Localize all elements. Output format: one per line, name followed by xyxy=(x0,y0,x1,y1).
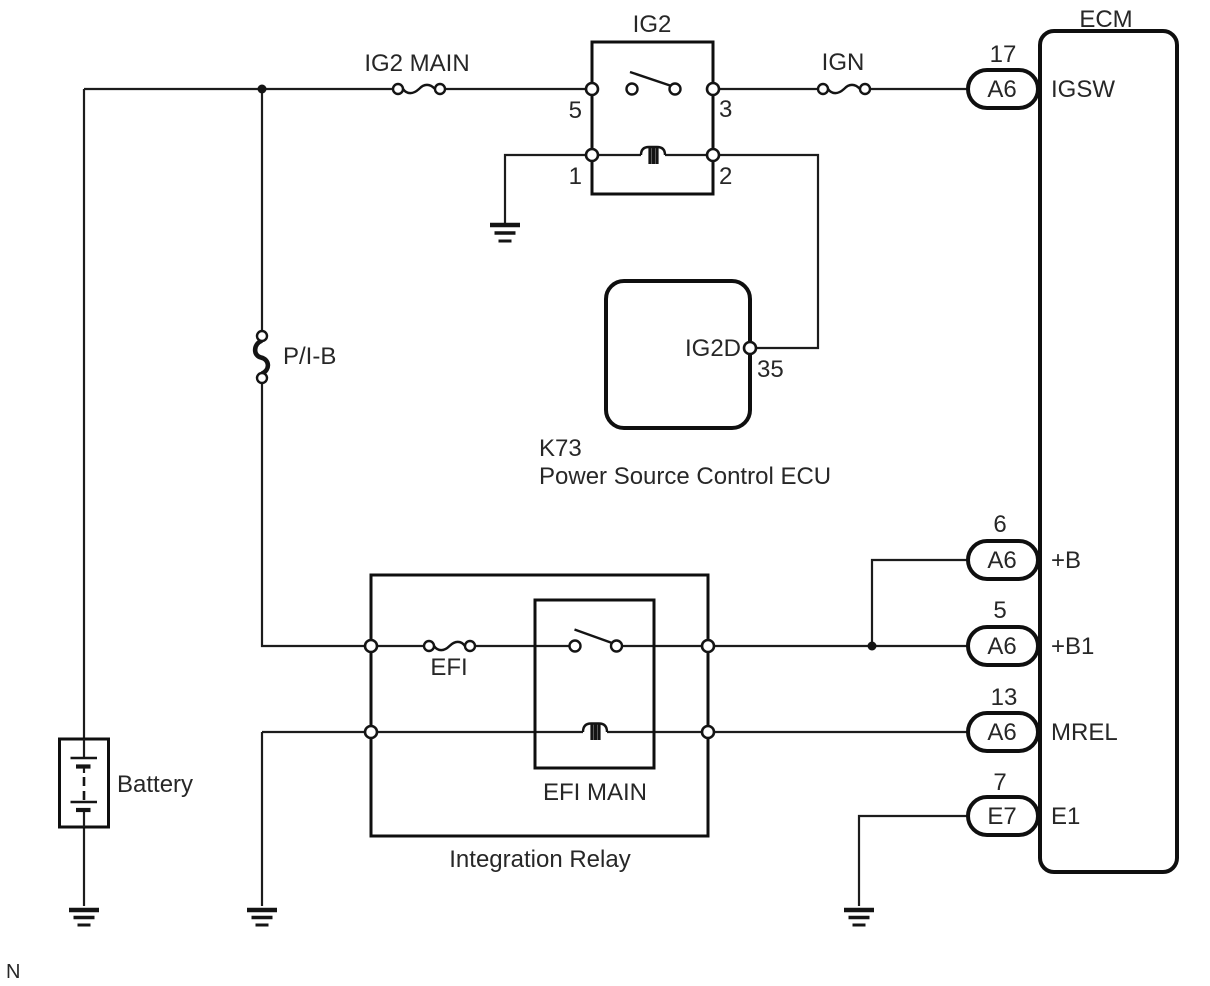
svg-text:13: 13 xyxy=(991,684,1018,711)
relay EFI MAIN outline xyxy=(535,600,654,768)
svg-text:ECM: ECM xyxy=(1079,6,1132,33)
svg-text:Power Source Control ECU: Power Source Control ECU xyxy=(539,463,831,490)
svg-text:E1: E1 xyxy=(1051,803,1080,830)
label: E1 xyxy=(1051,803,1080,830)
svg-text:IG2D: IG2D xyxy=(685,335,741,362)
label: MREL xyxy=(1051,719,1118,746)
label: +B xyxy=(1051,547,1081,574)
svg-text:EFI MAIN: EFI MAIN xyxy=(543,779,647,806)
svg-text:Battery: Battery xyxy=(117,771,193,798)
ground below ECM E1 xyxy=(844,910,874,925)
relay IG2 outline xyxy=(592,42,713,194)
svg-text:5: 5 xyxy=(993,597,1006,624)
svg-text:EFI: EFI xyxy=(430,654,467,681)
wire: EFI fuse to EFI MAIN switch xyxy=(470,645,575,647)
wire: coil to ECM MREL xyxy=(607,731,969,733)
connector A6 pin 13 MREL xyxy=(968,713,1038,751)
label: P/I-B xyxy=(283,343,336,370)
wire: battery positive feed, top horizontal left segment xyxy=(84,88,398,90)
pin number 35 xyxy=(757,356,784,383)
switch contact inside EFI MAIN xyxy=(570,630,623,652)
pin number 13 xyxy=(991,684,1018,711)
label: A6 (+B1) xyxy=(987,633,1016,660)
svg-text:N: N xyxy=(6,961,20,983)
terminal integration relay top-left xyxy=(365,640,377,652)
svg-text:Integration Relay: Integration Relay xyxy=(449,846,630,873)
pin IG2D terminal of K73 xyxy=(744,342,756,354)
label: EFI xyxy=(430,654,467,681)
fusible link P/I-B xyxy=(255,331,268,383)
pin 1 terminal of IG2 xyxy=(586,149,598,161)
wire: MREL line left side through relay coil xyxy=(262,731,583,733)
wire: E1 to ground xyxy=(859,816,969,906)
svg-text:2: 2 xyxy=(719,163,732,190)
pin number 6 xyxy=(993,511,1006,538)
ECU K73 Power Source Control ECU outline xyxy=(606,281,750,428)
pin number 5 (+B1) xyxy=(993,597,1006,624)
label: IGSW xyxy=(1051,76,1115,103)
pin 2 terminal of IG2 xyxy=(707,149,719,161)
svg-text:IG2 MAIN: IG2 MAIN xyxy=(364,50,469,77)
label: A6 (+B) xyxy=(987,547,1016,574)
wire: left vertical from top wire down to battery xyxy=(83,89,85,739)
label: Integration Relay xyxy=(449,846,630,873)
terminal integration relay bottom-right xyxy=(702,726,714,738)
node: junction of battery feed and P/I-B branch xyxy=(258,85,267,94)
wire: EFI MAIN switch to ECM +B1 xyxy=(617,645,970,647)
svg-text:K73: K73 xyxy=(539,435,582,462)
label: Power Source Control ECU xyxy=(539,463,831,490)
svg-text:IG2: IG2 xyxy=(633,11,672,38)
battery xyxy=(60,739,109,827)
wire: IG2 coil line pin2 side xyxy=(665,154,713,156)
pin number 7 xyxy=(993,769,1006,796)
svg-text:+B: +B xyxy=(1051,547,1081,574)
terminal integration relay bottom-left xyxy=(365,726,377,738)
svg-text:MREL: MREL xyxy=(1051,719,1118,746)
pin number 17 xyxy=(990,41,1017,68)
label: +B1 xyxy=(1051,633,1094,660)
svg-text:7: 7 xyxy=(993,769,1006,796)
wire: MREL line ground drop xyxy=(261,732,263,906)
wire: IG2 coil line pin1 side xyxy=(592,154,641,156)
pin 5 terminal of IG2 xyxy=(586,83,598,95)
pin number 1 xyxy=(569,163,582,190)
wire: IG2 pin 3 to IGN fuse xyxy=(713,88,823,90)
pin number 3 xyxy=(719,96,732,123)
svg-text:3: 3 xyxy=(719,96,732,123)
fuse IGN xyxy=(818,84,870,94)
svg-text:1: 1 xyxy=(569,163,582,190)
wire: P/I-B down to integration relay top feed xyxy=(262,378,429,646)
coil of IG2 relay xyxy=(641,147,665,164)
svg-text:A6: A6 xyxy=(987,633,1016,660)
label: IGN xyxy=(822,49,865,76)
label: A6 (MREL) xyxy=(987,719,1016,746)
svg-text:IGN: IGN xyxy=(822,49,865,76)
wire: IG2 pin 2 to K73 IG2D terminal xyxy=(713,155,818,348)
svg-text:5: 5 xyxy=(569,97,582,124)
terminal integration relay top-right xyxy=(702,640,714,652)
label: K73 xyxy=(539,435,582,462)
label: EFI MAIN xyxy=(543,779,647,806)
label: E7 xyxy=(987,803,1016,830)
label: ECM xyxy=(1079,6,1132,33)
connector A6 pin 6 +B xyxy=(968,541,1038,579)
svg-text:P/I-B: P/I-B xyxy=(283,343,336,370)
wire: top horizontal from IG2 MAIN fuse to IG2 relay pin 5 xyxy=(440,88,592,90)
connector A6 pin 17 IGSW xyxy=(968,70,1038,108)
svg-text:+B1: +B1 xyxy=(1051,633,1094,660)
label: IG2 xyxy=(633,11,672,38)
label: IG2 MAIN xyxy=(364,50,469,77)
switch contact inside IG2 relay xyxy=(627,72,681,95)
wire: battery negative to ground xyxy=(83,827,85,906)
node: junction on +B1 wire feeding +B xyxy=(868,642,877,651)
ECM outline xyxy=(1040,31,1177,872)
ground below IG2 pin 1 xyxy=(490,225,520,241)
svg-text:E7: E7 xyxy=(987,803,1016,830)
svg-text:A6: A6 xyxy=(987,547,1016,574)
wire: IGN fuse to ECM IGSW connector xyxy=(865,88,969,90)
wire: branch up to ECM +B xyxy=(872,560,969,646)
fuse EFI xyxy=(424,641,475,651)
pin number 2 xyxy=(719,163,732,190)
svg-text:35: 35 xyxy=(757,356,784,383)
svg-text:A6: A6 xyxy=(987,76,1016,103)
svg-text:IGSW: IGSW xyxy=(1051,76,1115,103)
ground below battery xyxy=(69,910,99,925)
coil of EFI MAIN relay xyxy=(583,724,607,741)
wire: P/I-B branch upper segment xyxy=(261,89,263,336)
label: Battery xyxy=(117,771,193,798)
relay block Integration Relay outline xyxy=(371,575,708,836)
pin 3 terminal of IG2 xyxy=(707,83,719,95)
pin number 5 xyxy=(569,97,582,124)
label: N footer mark xyxy=(6,961,20,983)
svg-text:A6: A6 xyxy=(987,719,1016,746)
label: IG2D xyxy=(685,335,741,362)
label: A6 (IGSW) xyxy=(987,76,1016,103)
svg-text:6: 6 xyxy=(993,511,1006,538)
fuse IG2 MAIN xyxy=(393,84,445,94)
connector A6 pin 5 +B1 xyxy=(968,627,1038,665)
svg-text:17: 17 xyxy=(990,41,1017,68)
connector E7 pin 7 E1 xyxy=(968,797,1038,835)
ground below integration relay coil line xyxy=(247,910,277,925)
wire: IG2 pin 1 to ground xyxy=(505,155,592,223)
